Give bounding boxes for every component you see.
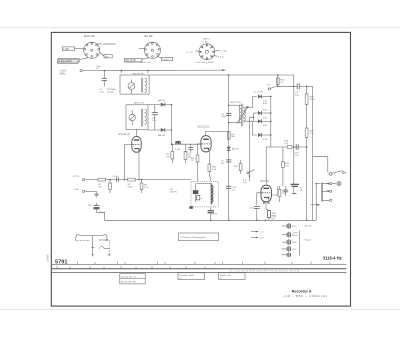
svg-text:SP/ZF TR1: SP/ZF TR1 xyxy=(230,102,242,104)
capacitor C15 on y147 xyxy=(296,144,298,150)
diode D2 xyxy=(161,128,165,132)
junction J04 (270.8,96.5) xyxy=(270,96,272,98)
terminal T1 xyxy=(80,69,82,71)
junction dot J2 xyxy=(265,220,267,222)
svg-text:Nz: Nz xyxy=(345,172,348,174)
svg-text:19-856: 19-856 xyxy=(47,254,50,262)
bus riser from CA xyxy=(97,212,105,220)
pin label box U2 right xyxy=(162,57,173,61)
head gap line xyxy=(92,236,94,257)
stack bracket xyxy=(298,231,300,256)
junction J12 (104.3,70.6) xyxy=(104,70,106,72)
svg-text:1 22400/2240: 1 22400/2240 xyxy=(101,44,116,46)
junction J15 (277.8,75) xyxy=(277,74,279,76)
junction J27 (256.8,220.3) xyxy=(256,220,258,222)
wire loop right vertical xyxy=(171,105,173,145)
wire into oscillator box xyxy=(120,70,122,73)
svg-text:0.5μ: 0.5μ xyxy=(100,91,105,93)
tube socket U3 (radial pin diagram) xyxy=(196,44,219,60)
resistor R19 on y147 xyxy=(287,146,292,149)
junction J11 (171.5,144.2) xyxy=(171,143,173,145)
cap C6 left of V2 xyxy=(188,144,193,153)
cathode resistor R21 xyxy=(266,209,270,220)
right vertical bus B1 xyxy=(277,75,279,86)
svg-text:(19 - 856 - 1000/s2): (19 - 856 - 1000/s2) xyxy=(284,294,328,298)
wire from oscillator box right xyxy=(149,74,229,76)
title block rule A xyxy=(52,263,347,265)
resistor R5 on mid bus xyxy=(227,132,230,139)
svg-text:ECC 81: ECC 81 xyxy=(84,34,95,38)
svg-text:Anzahl TDK-7/F: Anzahl TDK-7/F xyxy=(121,281,136,284)
T3 stub wire xyxy=(85,190,97,192)
svg-text:auf 64n: auf 64n xyxy=(107,91,115,93)
svg-text:4 d 11: 4 d 11 xyxy=(218,56,225,58)
bus arrowhead xyxy=(222,69,225,71)
svg-text:In Stellung «Wiedergabe»: In Stellung «Wiedergabe» xyxy=(181,236,207,239)
sheet top edge line xyxy=(0,27,400,29)
drawing border frame xyxy=(51,32,350,306)
IF transformer T2 xyxy=(237,104,249,126)
inductor L1 (winding in box) xyxy=(142,78,147,93)
sheet bottom edge line xyxy=(0,308,400,310)
cap C13 on mid vertical xyxy=(226,186,231,188)
V1 grid lead xyxy=(124,145,133,180)
svg-text:Masse: Masse xyxy=(292,235,299,237)
junction dot J1 xyxy=(210,220,212,222)
mid vertical bus x=228.7 xyxy=(228,75,230,164)
connector row K4 xyxy=(282,246,298,252)
head dashed base xyxy=(76,239,90,241)
inductor L2 (winding in box) xyxy=(142,109,147,127)
V1 cathode lead xyxy=(138,150,140,179)
svg-text:600 Hz: 600 Hz xyxy=(170,192,177,194)
cathode resistor R16 xyxy=(278,186,281,202)
junction J07 (270.8,135) xyxy=(270,134,272,136)
resistor R8 on B3 xyxy=(305,94,308,105)
decoupling capacitor C17 (grounded) xyxy=(291,147,300,194)
connector row K5 xyxy=(282,253,291,257)
rule ticks row2 xyxy=(57,266,205,269)
junction J13 (121.2,70.5) xyxy=(120,70,122,72)
svg-text:AUTO-TR: AUTO-TR xyxy=(134,102,144,105)
junction J03 (228.7,122.7) xyxy=(228,122,230,124)
tube V2 (triode) xyxy=(201,132,211,152)
switch S1 xyxy=(268,86,294,90)
diode D4 xyxy=(258,95,271,99)
capacitor C1 xyxy=(102,78,107,86)
input wire xyxy=(85,179,191,181)
junction J14 (148,70.4) xyxy=(147,70,149,72)
potentiometer P1 xyxy=(128,79,135,93)
junction J09 (171.5,104.6) xyxy=(171,104,173,106)
supply bus wire xyxy=(82,69,225,72)
svg-text:ECC 81 (1): ECC 81 (1) xyxy=(119,134,131,136)
electrolytic capacitor CA xyxy=(94,203,100,213)
svg-text:1 5 42: 1 5 42 xyxy=(162,59,169,61)
head gap tick xyxy=(91,247,94,249)
top-left label box P xyxy=(58,60,78,64)
svg-text:6/Pkt: 6/Pkt xyxy=(60,72,66,75)
svg-text:6L 1 Ton: 6L 1 Ton xyxy=(219,51,228,53)
V2 grid lead xyxy=(198,144,202,152)
junction J19 (306.6,86.3) xyxy=(306,86,308,88)
connector row K3 xyxy=(282,239,298,245)
capacitor C7 xyxy=(294,83,312,89)
svg-text:EM 71: EM 71 xyxy=(203,39,210,41)
svg-text:0 dB: 0 dB xyxy=(74,189,79,191)
output meter symbol xyxy=(332,182,341,186)
V3 cathode lead xyxy=(265,202,267,209)
svg-text:AA 119: AA 119 xyxy=(158,99,166,102)
vertical bus B2 xyxy=(293,75,295,147)
dashed filter box xyxy=(191,181,218,207)
svg-text:1 860: 1 860 xyxy=(63,49,69,51)
svg-text:Tonwelle 1 Wk/F: Tonwelle 1 Wk/F xyxy=(179,275,194,277)
title block rule C xyxy=(52,272,347,274)
junction J17 (293.2,86.3) xyxy=(293,86,295,88)
connector row K1 xyxy=(282,223,298,229)
wire jog to switch xyxy=(313,157,328,172)
head wire right xyxy=(99,239,109,241)
aux link row A1 xyxy=(251,231,264,234)
ground symbol G1 xyxy=(94,191,98,197)
pin label box U2 left xyxy=(124,58,142,62)
resistor R3 xyxy=(171,144,174,163)
note box bottom middle xyxy=(179,233,219,241)
resistor R4 xyxy=(184,144,187,163)
T2 secondary bottom lead xyxy=(244,121,257,135)
vertical bus B3 xyxy=(306,86,308,220)
head symbol (tape head) xyxy=(76,235,107,241)
parts box 1 xyxy=(120,274,145,284)
resistor R7 xyxy=(276,78,279,84)
input terminal T2 xyxy=(82,178,84,180)
connector row K2 xyxy=(282,232,299,238)
junction J24 (110,179.6) xyxy=(109,179,111,181)
T2 primary top lead xyxy=(229,104,241,106)
power switch S3 xyxy=(328,171,344,176)
wire V3 plate top xyxy=(271,186,277,195)
wire loop top xyxy=(148,104,172,106)
junction J26 (228.7,220.3) xyxy=(228,220,230,222)
svg-text:1 Ton: 1 Ton xyxy=(203,41,209,43)
output branch 3 xyxy=(322,199,332,201)
junction J06 (270.8,121.3) xyxy=(270,121,272,123)
junction J02 (228.7,105.2) xyxy=(228,104,230,106)
T2 primary bottom lead xyxy=(229,122,241,124)
pin label box U1 right xyxy=(104,55,112,59)
junction J20 (306.6,147) xyxy=(306,146,308,148)
tube socket U2 (EL 84 base diagram) xyxy=(139,42,161,59)
junction J23 (139,179.6) xyxy=(138,179,140,181)
filter coil L4 (dark winding) xyxy=(211,183,213,204)
tube V3 (output triode) xyxy=(261,185,271,202)
wire top cross run xyxy=(229,74,294,76)
junction dot J3 xyxy=(249,175,251,177)
diode D3 on mid bus xyxy=(227,147,231,151)
parts box 2 xyxy=(178,273,205,280)
diode output vertical xyxy=(270,97,272,148)
bus riser right xyxy=(315,184,317,221)
coupling cap C8 on input line xyxy=(117,177,119,181)
svg-text:WIDTH-TR: WIDTH-TR xyxy=(133,74,144,76)
svg-text:4 x 11: 4 x 11 xyxy=(187,52,194,54)
svg-text:0.1μ: 0.1μ xyxy=(295,155,300,157)
vertical bus B4 xyxy=(312,86,314,156)
filter inner wire xyxy=(197,182,212,184)
output branch 2 xyxy=(322,190,332,192)
cathode resistor R20 xyxy=(208,164,211,181)
capacitor C4 on mid bus xyxy=(226,113,231,115)
diode feed vertical xyxy=(252,113,254,121)
svg-text:250V: 250V xyxy=(292,242,297,244)
resistor R9 on B3 xyxy=(305,128,308,137)
svg-text:6V3 ~: 6V3 ~ xyxy=(292,249,298,251)
T2 secondary top lead xyxy=(244,97,257,108)
head bump symbol xyxy=(100,247,105,249)
wire y147 run right xyxy=(271,146,307,148)
plate feed vertical x=282.9 xyxy=(282,147,284,162)
V2 cathode lead xyxy=(208,150,210,164)
svg-text:AA 119: AA 119 xyxy=(232,147,240,150)
wire anode run y=145 xyxy=(172,143,202,145)
junction J05 (270.8,113) xyxy=(270,112,272,114)
svg-text:Wkz/4 + abc: Wkz/4 + abc xyxy=(220,275,231,277)
svg-text:AA 119: AA 119 xyxy=(158,134,166,137)
svg-text:ECC 81 (1): ECC 81 (1) xyxy=(198,127,210,129)
junction J16 (277.8,86.3) xyxy=(277,86,279,88)
svg-text:1x 6a 16/3 g 22400: 1x 6a 16/3 g 22400 xyxy=(195,62,215,64)
junction J28 (316.2,183.6) xyxy=(315,183,317,185)
svg-text:ECC 81: ECC 81 xyxy=(261,181,270,183)
junction J21 (306.6,220.3) xyxy=(306,220,308,222)
aux link row A2 xyxy=(251,237,264,240)
rule ticks row1 xyxy=(78,262,331,265)
parts box 3 xyxy=(219,273,246,280)
corner block xyxy=(189,206,192,209)
head arrows bottom xyxy=(92,254,94,257)
cap C14 right of V3 xyxy=(283,186,288,196)
svg-text:a b c d 12 14 16 18 21 24 26 2: a b c d 12 14 16 18 21 24 26 28 31 34 36… xyxy=(229,271,300,273)
wire to V3 anode xyxy=(266,147,271,185)
grid capacitor C16 xyxy=(254,207,260,221)
svg-text:EL 84: EL 84 xyxy=(145,34,153,38)
cathode resistor R6 xyxy=(196,152,199,181)
svg-text:6V3 ~: 6V3 ~ xyxy=(292,226,298,228)
svg-text:1.5H: 1.5H xyxy=(175,149,180,151)
diode D7 xyxy=(258,133,271,137)
mid vertical to bus xyxy=(228,196,230,220)
series resistor R12 xyxy=(128,178,136,181)
junction J18 (293.2,147) xyxy=(293,146,295,148)
tube V1 (triode) xyxy=(132,129,141,152)
mid vertical from C5 down xyxy=(228,164,230,196)
head vertical dashed xyxy=(108,240,110,256)
wire box2 top feed xyxy=(147,70,149,73)
oscillator box TR1 xyxy=(120,75,149,94)
plate resistor R22 xyxy=(282,162,285,168)
junction J25 (141.5,179.6) xyxy=(141,179,143,181)
junction J10 (171.5,130) xyxy=(171,129,173,131)
oscillator box TR2 xyxy=(126,105,148,130)
shunt resistor R14 xyxy=(140,180,143,193)
svg-text:Bezüge 100 Ton: Bezüge 100 Ton xyxy=(121,276,137,278)
output branch 1 xyxy=(316,183,332,185)
svg-text:1x LG 3P: 1x LG 3P xyxy=(254,91,264,93)
choke L3 on wire xyxy=(175,141,180,144)
V3 pin circles xyxy=(263,202,265,204)
R22 lower lead xyxy=(282,167,284,186)
capacitor C5 on mid bus xyxy=(226,160,231,162)
svg-text:LR: LR xyxy=(96,68,99,70)
switch S4 xyxy=(247,170,255,174)
wire loop bottom xyxy=(148,129,172,131)
junction J22 (124.3,179.6) xyxy=(124,179,126,181)
tube socket U1 (ECC 81 base diagram) xyxy=(75,42,105,59)
head wire lower xyxy=(104,247,109,249)
diode D1 xyxy=(161,103,165,107)
junction J08 (253.4,117.2) xyxy=(253,116,255,118)
svg-text:Anschl.: Anschl. xyxy=(305,225,312,228)
junction J01 (228.7,75) xyxy=(228,74,230,76)
svg-text:0.775V~: 0.775V~ xyxy=(73,176,82,178)
filter trimmer P3 (dark) xyxy=(193,183,200,202)
series resistor R10 xyxy=(98,178,106,181)
wire C1 drop xyxy=(103,71,105,79)
V2 anode top wire xyxy=(206,131,229,133)
diode D6 xyxy=(253,119,270,123)
svg-text:CA: CA xyxy=(88,204,92,207)
svg-text:Generator u. Endteil 6 f 42: Generator u. Endteil 6 f 42 xyxy=(125,61,151,64)
title block rule B xyxy=(52,268,347,270)
output bundle stem xyxy=(321,182,323,201)
capacitor C3 in loop xyxy=(152,105,158,130)
diode D5 xyxy=(253,111,270,115)
wire discriminator mid to ground xyxy=(249,117,253,181)
shunt resistor R13 xyxy=(109,180,112,193)
V3 grid lead xyxy=(257,193,263,205)
pin label box U1 lower-left xyxy=(58,59,79,63)
svg-text:Recorder A: Recorder A xyxy=(292,289,312,293)
svg-text:120p: 120p xyxy=(221,116,227,118)
resistor R15 (x=240) xyxy=(239,160,242,174)
terminal T3 xyxy=(82,190,84,192)
cap C11 below box xyxy=(208,207,214,220)
svg-text:Eigene: Eigene xyxy=(305,240,312,242)
potentiometer P2 xyxy=(129,110,135,125)
svg-text:3116-4 Hz: 3116-4 Hz xyxy=(323,256,342,261)
arrow into bundle xyxy=(311,204,321,206)
bottom bus wire xyxy=(105,219,317,221)
pin label box U1 left xyxy=(62,47,74,51)
svg-text:Pegel 1 Eing.: Pegel 1 Eing. xyxy=(59,62,72,64)
